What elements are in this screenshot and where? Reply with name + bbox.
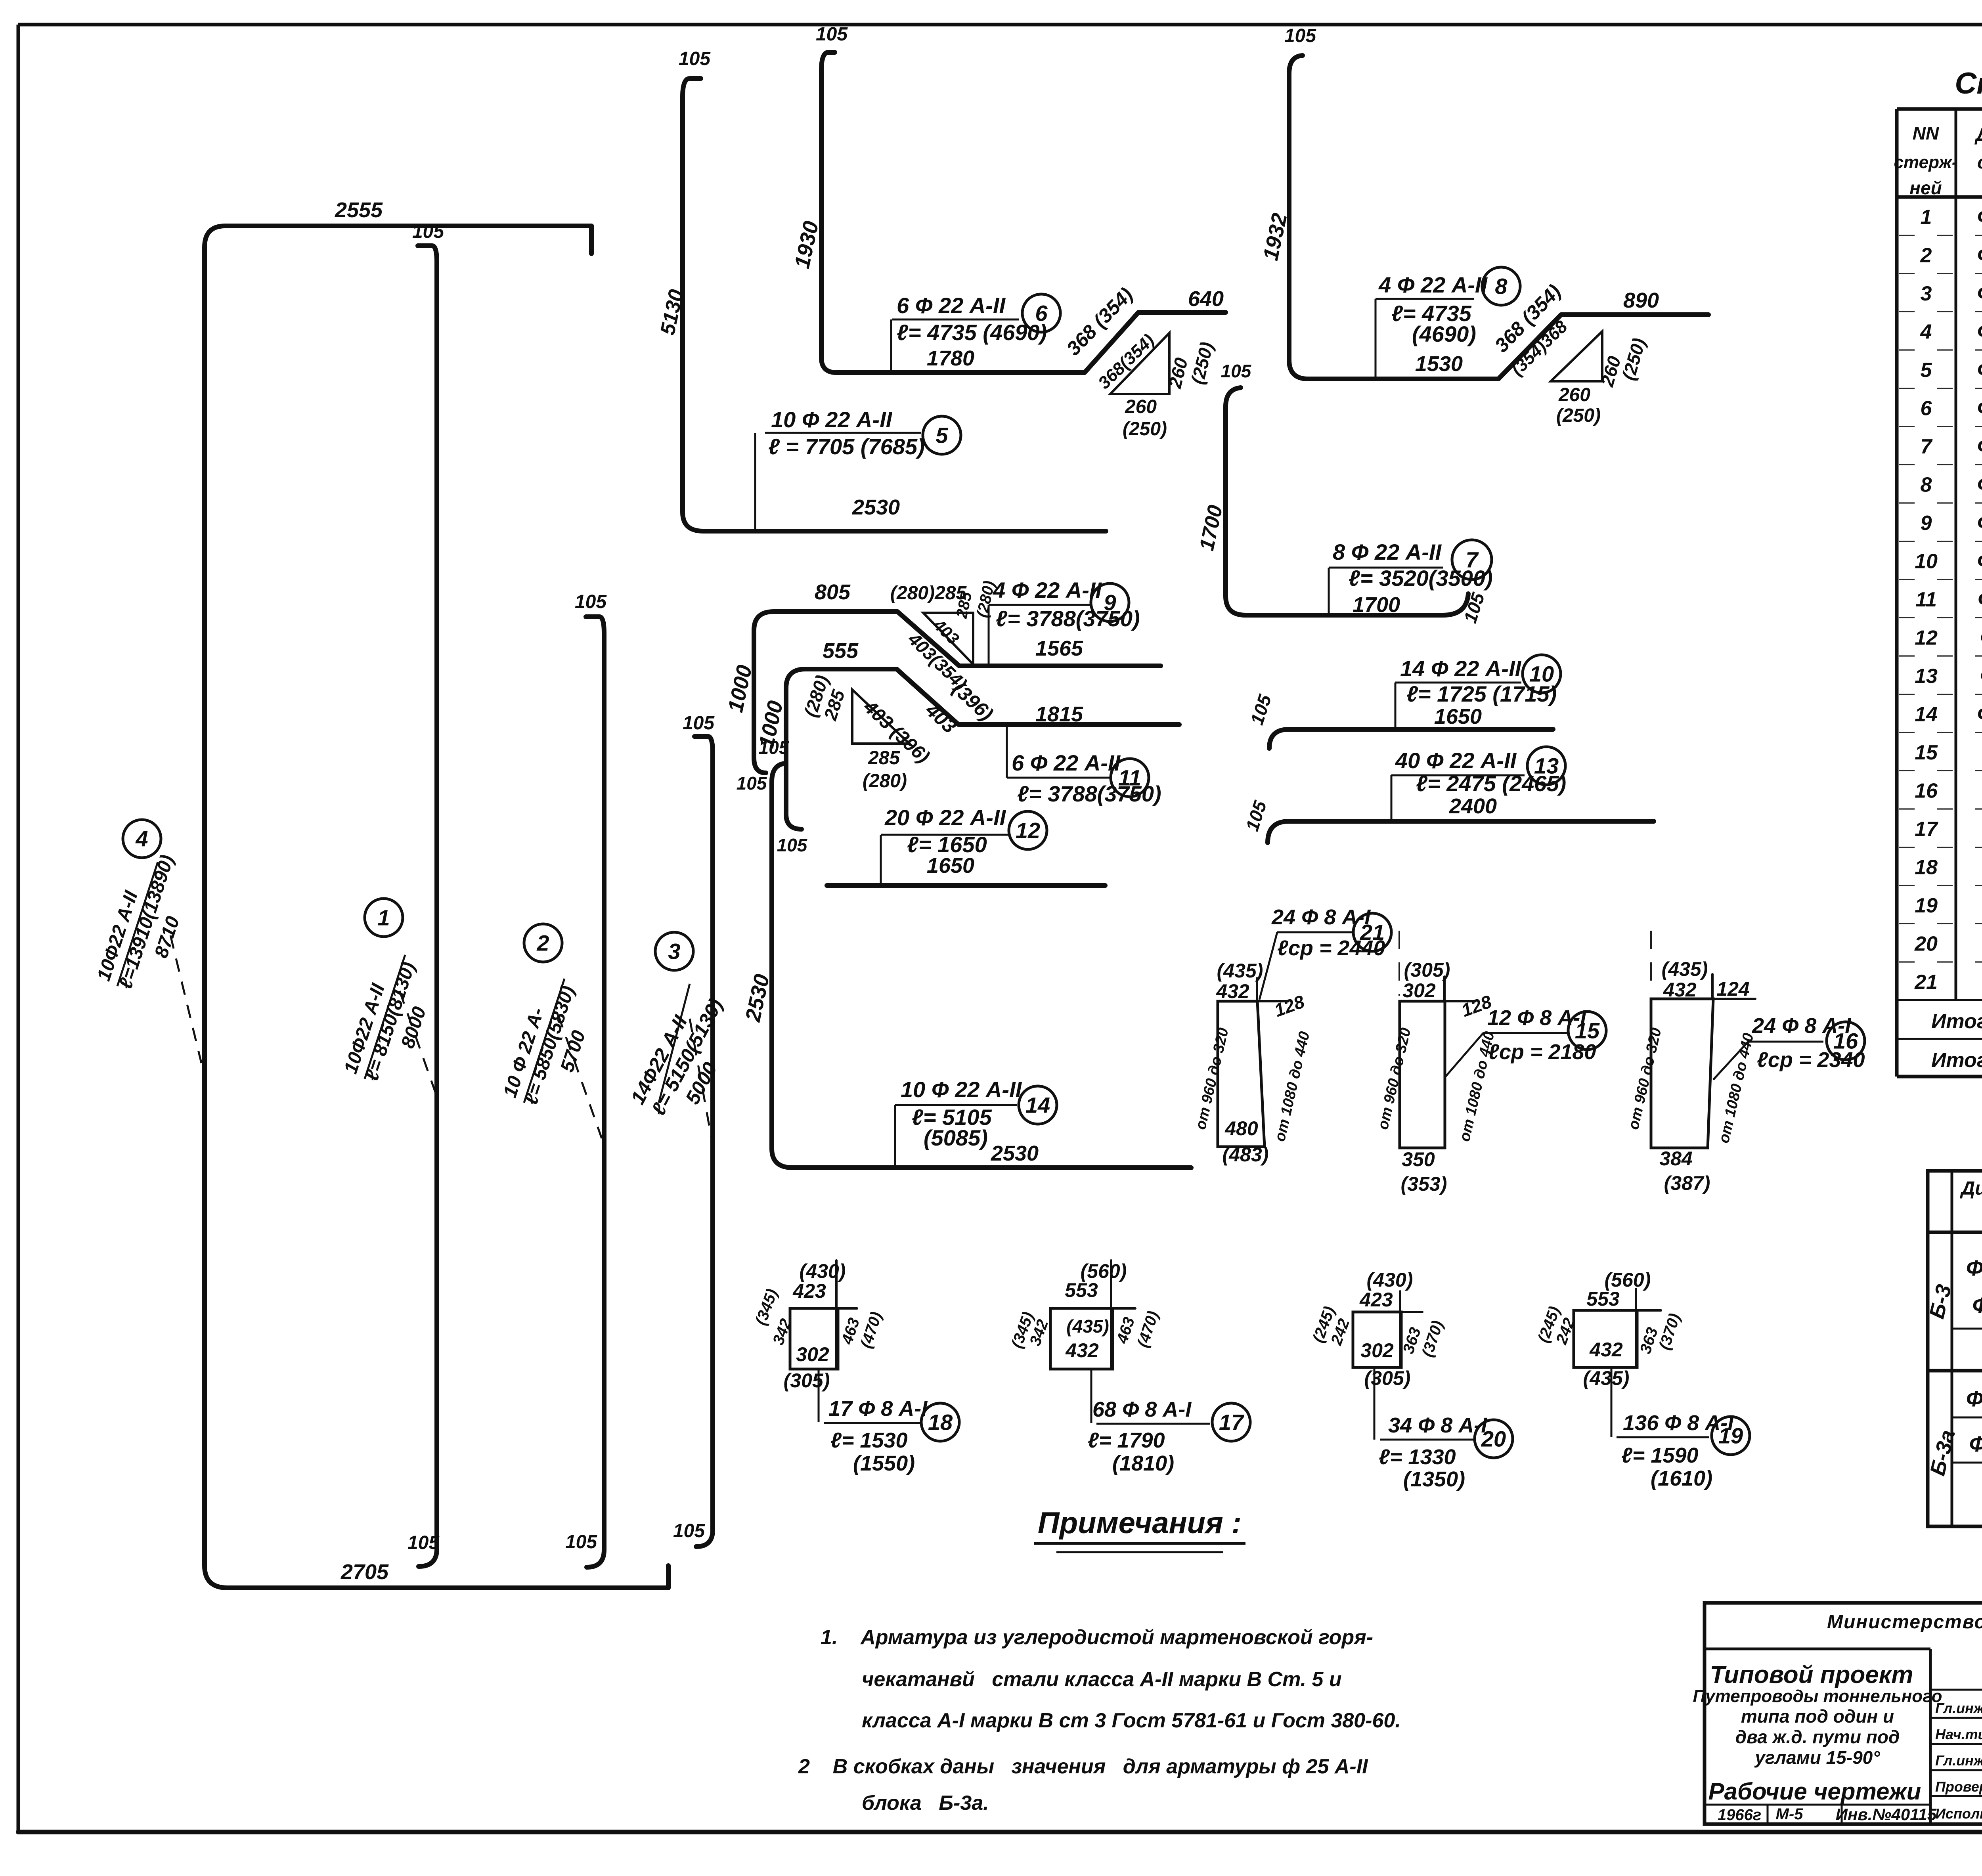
callout 8	[1376, 267, 1520, 379]
svg-text:Гл.инж ГТМ: Гл.инж ГТМ	[1935, 1700, 1982, 1716]
bar 13 (2400 straight with left hook)	[1242, 798, 1654, 843]
svg-text:(250): (250)	[1123, 419, 1167, 440]
svg-text:105: 105	[673, 1520, 705, 1541]
callout 14	[895, 1077, 1057, 1168]
svg-text:432: 432	[1663, 979, 1697, 1001]
spec table totals	[1931, 1009, 1982, 1073]
svg-text:3: 3	[1921, 282, 1932, 305]
svg-text:(430): (430)	[800, 1260, 846, 1282]
svg-text:2400: 2400	[1449, 794, 1497, 818]
svg-text:(435): (435)	[1583, 1367, 1630, 1389]
svg-text:1966г: 1966г	[1718, 1806, 1761, 1824]
svg-text:Министерство транспортного с: Министерство транспортного строительства…	[1827, 1612, 1982, 1633]
svg-text:15: 15	[1575, 1018, 1600, 1043]
svg-text:14 Ф 22 A-II: 14 Ф 22 A-II	[1400, 656, 1522, 681]
svg-text:105: 105	[777, 835, 808, 855]
svg-text:8 Ф 22 A-II: 8 Ф 22 A-II	[1333, 539, 1442, 564]
svg-text:19: 19	[1915, 894, 1938, 917]
svg-text:ℓ= 3788(3750): ℓ= 3788(3750)	[996, 606, 1140, 631]
svg-text:1: 1	[1921, 206, 1932, 229]
svg-text:17: 17	[1915, 818, 1938, 841]
svg-text:10 Ф 22 A-II: 10 Ф 22 A-II	[901, 1077, 1022, 1102]
svg-text:2705: 2705	[341, 1560, 389, 1584]
svg-text:(280): (280)	[863, 771, 907, 792]
svg-text:2 В скобках даны значени: 2 В скобках даны значения для арматуры ф…	[798, 1755, 1368, 1778]
svg-text:Ф22 А-II: Ф22 А-II	[1977, 702, 1982, 726]
svg-text:105: 105	[679, 48, 711, 69]
svg-text:Диаметр: Диаметр	[1960, 1178, 1982, 1199]
svg-text:Ф25А-II: Ф25А-II	[1966, 1386, 1982, 1411]
svg-text:124: 124	[1716, 978, 1749, 1000]
svg-text:углами 15-90°: углами 15-90°	[1754, 1747, 1880, 1768]
bar 10 (1650 straight with left hook)	[1246, 692, 1553, 748]
callout 20	[1374, 1367, 1513, 1491]
callout 13	[1391, 747, 1566, 821]
bar 6 (1930 vertical, 1780 bottom, Z-bend, 640)	[790, 24, 1226, 373]
svg-text:ℓ= 4735 (4690): ℓ= 4735 (4690)	[897, 320, 1047, 345]
stirrup 20 (square 302x242)	[1309, 1269, 1446, 1389]
svg-text:285: 285	[868, 748, 900, 769]
svg-text:блока Б-3а.: блока Б-3а.	[862, 1792, 989, 1815]
svg-text:17: 17	[1219, 1410, 1245, 1435]
svg-text:Ф22 А II: Ф22 А II	[1978, 587, 1982, 611]
svg-text:Ф22 А-II: Ф22 А-II	[1977, 243, 1982, 267]
svg-text:20 Ф 22 A-II: 20 Ф 22 A-II	[884, 805, 1006, 830]
svg-text:1650: 1650	[1434, 705, 1482, 729]
svg-text:ℓ= 2475 (2465): ℓ= 2475 (2465)	[1416, 771, 1566, 796]
svg-text:40 Ф 22 A-II: 40 Ф 22 A-II	[1395, 748, 1517, 773]
svg-text:302: 302	[1360, 1339, 1394, 1362]
svg-text:890: 890	[1623, 289, 1659, 312]
bar 11 (555 top, step down, 1815)	[754, 639, 1179, 855]
svg-text:(387): (387)	[1664, 1172, 1710, 1194]
svg-text:18: 18	[1915, 856, 1938, 879]
svg-text:68 Ф 8 A-I: 68 Ф 8 A-I	[1092, 1398, 1192, 1421]
svg-text:6 Ф 22 A-II: 6 Ф 22 A-II	[1012, 750, 1121, 775]
svg-text:16: 16	[1915, 780, 1938, 803]
svg-text:Итого арматуры Ф 22 А-II (Ф2: Итого арматуры Ф 22 А-II (Ф25А-II)	[1931, 1010, 1982, 1033]
svg-text:432: 432	[1065, 1339, 1099, 1362]
svg-text:105: 105	[407, 1532, 440, 1553]
svg-text:ℓ= 3788(3750): ℓ= 3788(3750)	[1017, 781, 1161, 806]
svg-text:423: 423	[1359, 1289, 1393, 1311]
svg-text:(305): (305)	[1404, 959, 1450, 981]
bar 4 (C-shape 2555/8710/2705)	[205, 198, 668, 1588]
spec table header	[1894, 122, 1982, 198]
svg-text:14: 14	[1915, 703, 1938, 726]
svg-text:5: 5	[936, 423, 948, 448]
svg-text:105: 105	[1284, 25, 1316, 46]
svg-text:105: 105	[575, 591, 607, 612]
svg-text:350: 350	[1402, 1148, 1435, 1170]
svg-text:два ж.д. пути под: два ж.д. пути под	[1735, 1727, 1900, 1747]
svg-text:4 Ф 22 A-II: 4 Ф 22 A-II	[993, 578, 1102, 602]
svg-text:105: 105	[759, 737, 790, 758]
svg-text:14: 14	[1025, 1093, 1050, 1118]
svg-text:15: 15	[1915, 741, 1938, 764]
svg-text:2530: 2530	[991, 1142, 1039, 1165]
svg-text:1530: 1530	[1415, 352, 1463, 376]
bar 5 (L-shape 5130/2530)	[656, 48, 1106, 531]
svg-text:8: 8	[1495, 274, 1508, 299]
svg-text:Гл.инж. проектa: Гл.инж. проектa	[1935, 1752, 1982, 1769]
bend labels shape 11	[800, 673, 997, 792]
svg-text:11: 11	[1915, 588, 1937, 611]
bend labels shape 8	[1490, 280, 1650, 426]
svg-text:302: 302	[796, 1343, 829, 1365]
svg-text:6 Ф 22 A-II: 6 Ф 22 A-II	[897, 293, 1006, 318]
svg-text:7: 7	[1921, 435, 1933, 458]
svg-text:555: 555	[823, 639, 859, 663]
svg-text:(1610): (1610)	[1651, 1467, 1712, 1490]
bar 3 (vertical 5000)	[673, 713, 715, 1547]
svg-text:ℓ= 1790: ℓ= 1790	[1088, 1429, 1165, 1452]
spec table grid	[1897, 109, 1982, 1077]
svg-text:21: 21	[1914, 971, 1938, 994]
svg-text:Примечания :: Примечания :	[1038, 1506, 1242, 1540]
svg-text:Ф22А-II: Ф22А-II	[1966, 1255, 1982, 1280]
svg-text:(250): (250)	[1556, 405, 1601, 426]
svg-text:260: 260	[1125, 396, 1157, 417]
svg-text:Нач.тип отд: Нач.тип отд	[1935, 1726, 1982, 1742]
svg-text:18: 18	[928, 1410, 953, 1435]
svg-text:Итого арматуры Ф 8 А-I: Итого арматуры Ф 8 А-I	[1931, 1049, 1982, 1072]
svg-text:4: 4	[1920, 321, 1932, 344]
callout 12	[881, 805, 1047, 885]
svg-text:20: 20	[1481, 1427, 1506, 1451]
svg-text:1650: 1650	[927, 854, 974, 878]
svg-text:Спецификация арматуры: Спецификация арматуры	[1955, 67, 1982, 100]
svg-text:(435): (435)	[1066, 1316, 1109, 1337]
svg-text:805: 805	[815, 580, 851, 604]
svg-text:20: 20	[1914, 933, 1938, 956]
svg-text:4: 4	[135, 826, 148, 851]
svg-text:1. Арматура из углеродист: 1. Арматура из углеродистой мартеновской…	[821, 1626, 1373, 1649]
svg-text:1: 1	[377, 905, 390, 930]
bar 2 (vertical 5700)	[565, 591, 607, 1567]
svg-text:Ф22 А-II: Ф22 А-II	[1977, 511, 1982, 535]
svg-text:10: 10	[1915, 550, 1938, 573]
svg-text:ℓср = 2180: ℓср = 2180	[1488, 1040, 1596, 1064]
bar 1 (vertical 8000)	[407, 221, 444, 1566]
svg-text:34 Ф 8 A-I: 34 Ф 8 A-I	[1388, 1413, 1487, 1437]
dashed axis for stirrup 15	[1398, 931, 1400, 996]
svg-text:Ф22 А-II: Ф22 А-II	[1977, 281, 1982, 305]
svg-text:553: 553	[1065, 1279, 1098, 1301]
svg-text:ℓ= 1530: ℓ= 1530	[830, 1429, 908, 1452]
svg-text:4 Ф 22 A-II: 4 Ф 22 A-II	[1378, 272, 1488, 297]
stirrup 16 (tall rect 432x384)	[1625, 958, 1757, 1194]
svg-text:(483): (483)	[1222, 1144, 1269, 1166]
svg-text:Проверил: Проверил	[1935, 1778, 1982, 1795]
callout 5	[755, 407, 961, 530]
svg-text:(4690): (4690)	[1412, 321, 1476, 346]
stirrup 15 (tall rect 302x350)	[1375, 959, 1498, 1195]
svg-text:2555: 2555	[335, 198, 383, 222]
svg-text:Ф22 А-II: Ф22 А-II	[1977, 473, 1982, 497]
svg-text:12: 12	[1915, 627, 1938, 650]
svg-text:(435): (435)	[1217, 960, 1263, 982]
svg-text:10 Ф 22 A-II: 10 Ф 22 A-II	[771, 407, 893, 432]
callout 11	[1007, 702, 1161, 806]
vyborka data	[1966, 1255, 1982, 1515]
svg-text:чекатанвй стали класса А-I: чекатанвй стали класса А-II марки В Ст. …	[862, 1668, 1342, 1691]
svg-text:(1550): (1550)	[853, 1451, 915, 1475]
svg-text:553: 553	[1586, 1288, 1620, 1310]
svg-text:105: 105	[737, 773, 767, 794]
svg-text:12: 12	[1016, 818, 1040, 843]
svg-text:9: 9	[1921, 512, 1932, 535]
svg-text:640: 640	[1188, 287, 1224, 311]
bar 7 (1700 vertical + 1700 bottom)	[1195, 361, 1489, 625]
callout 1	[340, 899, 438, 1099]
svg-text:ℓ= 3520(3500): ℓ= 3520(3500)	[1349, 566, 1493, 591]
svg-text:Рабочие чертежи: Рабочие чертежи	[1708, 1778, 1921, 1805]
svg-text:13: 13	[1915, 665, 1938, 688]
spec table data rows	[1914, 205, 1982, 994]
svg-text:ней: ней	[1909, 178, 1942, 198]
svg-text:(1350): (1350)	[1403, 1467, 1465, 1491]
svg-text:типа под один и: типа под один и	[1741, 1706, 1894, 1727]
svg-text:(353): (353)	[1401, 1173, 1447, 1195]
svg-text:302: 302	[1402, 979, 1436, 1002]
svg-text:класса А-I марки В ст 3 Го: класса А-I марки В ст 3 Гост 5781-61 и Г…	[862, 1709, 1401, 1732]
svg-text:Ф22 А-II: Ф22 А-II	[1977, 358, 1982, 382]
svg-text:(435): (435)	[1662, 958, 1708, 980]
svg-text:8: 8	[1921, 474, 1932, 497]
svg-text:105: 105	[565, 1532, 597, 1553]
svg-text:105: 105	[683, 713, 715, 734]
svg-text:ℓср = 2340: ℓср = 2340	[1757, 1048, 1865, 1072]
vyborka header	[1960, 1174, 1982, 1232]
svg-text:Ф22 А-II: Ф22 А-II	[1977, 320, 1982, 344]
callout 7	[1329, 539, 1493, 617]
svg-text:стержня: стержня	[1977, 152, 1982, 172]
callout 4	[93, 820, 201, 1063]
svg-text:Ф 8 А-I: Ф 8 А-I	[1969, 1431, 1982, 1456]
svg-text:Ф22 А-II: Ф22 А-II	[1977, 549, 1982, 573]
svg-text:423: 423	[792, 1280, 826, 1302]
svg-text:1565: 1565	[1035, 637, 1083, 660]
svg-text:3: 3	[668, 939, 680, 964]
callout 15	[1445, 1006, 1606, 1077]
svg-text:2530: 2530	[852, 495, 900, 519]
callout 6	[891, 293, 1060, 373]
svg-text:М-5: М-5	[1776, 1805, 1804, 1823]
svg-text:(305): (305)	[1364, 1367, 1411, 1389]
svg-text:Ф22А-II: Ф22А-II	[1980, 626, 1982, 650]
callout 9	[989, 578, 1140, 666]
bend labels shape 9	[890, 579, 998, 694]
svg-text:6: 6	[1921, 397, 1932, 420]
callout 16	[1713, 1014, 1865, 1080]
stirrup 19 (square 432x242)	[1534, 1269, 1684, 1389]
title block texts	[1693, 1612, 1982, 1824]
callout 18	[819, 1369, 959, 1475]
svg-text:105: 105	[816, 24, 848, 45]
vyborka table grid	[1928, 1171, 1982, 1526]
svg-text:480: 480	[1224, 1117, 1258, 1140]
bar 12 (1650 straight)	[827, 883, 1105, 888]
svg-text:(1810): (1810)	[1112, 1451, 1174, 1475]
svg-text:Путепроводы тоннельного: Путепроводы тоннельного	[1693, 1687, 1942, 1706]
bend labels shape 6	[1062, 283, 1217, 440]
svg-text:Типовой проект: Типовой проект	[1710, 1661, 1913, 1689]
svg-text:1780: 1780	[927, 346, 974, 370]
notes heading	[1034, 1506, 1245, 1552]
svg-text:1700: 1700	[1353, 593, 1400, 617]
svg-text:260: 260	[1558, 384, 1590, 405]
callout 21	[1259, 905, 1391, 1000]
dashed axis for stirrup 16	[1650, 931, 1652, 994]
svg-text:ℓср = 2440: ℓср = 2440	[1277, 936, 1385, 960]
svg-text:ℓ= 1650: ℓ= 1650	[907, 832, 987, 857]
svg-text:19: 19	[1718, 1423, 1743, 1448]
svg-text:(5085): (5085)	[924, 1125, 988, 1150]
svg-text:Ф8 А-I: Ф8 А-I	[1972, 1293, 1982, 1318]
title block frame	[1705, 1603, 1982, 1824]
svg-text:(280)285: (280)285	[890, 583, 967, 604]
svg-text:105: 105	[1221, 361, 1252, 381]
svg-text:стерж-: стерж-	[1894, 153, 1958, 172]
svg-text:ℓ= 1590: ℓ= 1590	[1621, 1444, 1699, 1467]
svg-text:Ф22А-II: Ф22А-II	[1980, 664, 1982, 688]
svg-text:2: 2	[536, 931, 549, 956]
bar 14 (L-shape 2530/2530)	[741, 737, 1191, 1168]
svg-text:2: 2	[1920, 244, 1932, 267]
callout 2	[499, 924, 602, 1138]
svg-text:ℓ= 1330: ℓ= 1330	[1379, 1445, 1456, 1469]
svg-text:Ф22 А-II: Ф22 А-II	[1977, 434, 1982, 458]
svg-text:Исполнил: Исполнил	[1935, 1805, 1982, 1822]
svg-text:Ф22 А-II: Ф22 А-II	[1977, 205, 1982, 229]
svg-text:432: 432	[1216, 980, 1249, 1002]
svg-text:ℓ = 7705 (7685): ℓ = 7705 (7685)	[768, 434, 925, 459]
svg-text:1815: 1815	[1035, 702, 1083, 726]
svg-text:384: 384	[1659, 1147, 1692, 1170]
bar 9 (805 top, step down, 1565)	[723, 580, 1161, 794]
svg-text:432: 432	[1589, 1339, 1623, 1361]
svg-text:(430): (430)	[1367, 1269, 1413, 1291]
stirrup 18 (square 302x342)	[752, 1260, 885, 1392]
stirrup 21 (tall rect 432x480)	[1192, 960, 1313, 1166]
callout 3	[626, 932, 727, 1149]
svg-text:Ф22 А-II: Ф22 А-II	[1977, 396, 1982, 420]
svg-text:105: 105	[412, 221, 444, 242]
callout 17	[1088, 1369, 1250, 1475]
stirrup 17 (square 432x342)	[1008, 1260, 1162, 1369]
svg-text:ℓ= 1725 (1715): ℓ= 1725 (1715)	[1406, 681, 1557, 706]
bar 8 (1932 vertical, 1530 bottom, Z-bend, 890)	[1259, 25, 1708, 379]
svg-text:NN: NN	[1913, 123, 1939, 143]
svg-text:Инв.№40115: Инв.№40115	[1836, 1805, 1937, 1824]
callout 19	[1611, 1367, 1750, 1490]
svg-text:(305): (305)	[784, 1369, 830, 1392]
callout 10	[1395, 655, 1561, 729]
svg-text:5: 5	[1921, 359, 1932, 382]
svg-text:17 Ф 8 A-I: 17 Ф 8 A-I	[828, 1397, 928, 1421]
